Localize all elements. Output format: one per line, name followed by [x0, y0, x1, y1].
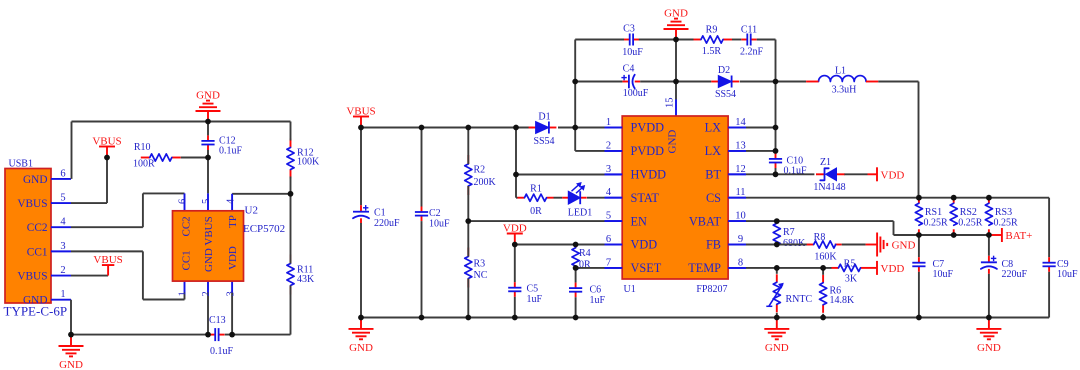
svg-text:L1: L1 [835, 65, 846, 76]
svg-text:2.2nF: 2.2nF [740, 47, 764, 58]
svg-text:VBUS: VBUS [92, 135, 121, 147]
svg-text:R8: R8 [814, 232, 826, 243]
svg-text:0.25R: 0.25R [958, 218, 983, 229]
svg-text:8: 8 [738, 257, 743, 268]
svg-text:GND: GND [892, 240, 916, 252]
svg-text:GND: GND [59, 359, 83, 370]
svg-text:SS54: SS54 [533, 136, 554, 147]
svg-text:GND VBUS: GND VBUS [203, 216, 215, 272]
svg-text:VBUS: VBUS [346, 105, 375, 117]
svg-text:R4: R4 [579, 248, 591, 259]
svg-text:LX: LX [705, 144, 722, 158]
svg-text:7: 7 [606, 257, 611, 268]
svg-text:FP8207: FP8207 [696, 284, 727, 295]
svg-text:220uF: 220uF [1002, 269, 1028, 280]
svg-text:GND: GND [977, 342, 1001, 354]
svg-text:PVDD: PVDD [631, 144, 665, 158]
svg-text:10uF: 10uF [429, 219, 450, 230]
svg-text:RNTC: RNTC [786, 294, 813, 305]
svg-text:0R: 0R [579, 260, 591, 271]
svg-text:D1: D1 [538, 112, 550, 123]
svg-text:U1: U1 [624, 284, 636, 295]
svg-text:0R: 0R [530, 206, 542, 217]
svg-text:3: 3 [60, 241, 65, 252]
svg-text:2: 2 [606, 140, 611, 151]
svg-text:3K: 3K [845, 273, 858, 284]
svg-text:3: 3 [225, 291, 236, 296]
svg-text:GND: GND [667, 130, 679, 154]
svg-text:3.3uH: 3.3uH [832, 85, 857, 96]
svg-text:FB: FB [706, 238, 721, 252]
svg-text:VBUS: VBUS [17, 198, 47, 210]
svg-text:200K: 200K [474, 177, 497, 188]
svg-text:10uF: 10uF [1057, 269, 1078, 280]
svg-text:6: 6 [60, 168, 65, 179]
svg-text:VDD: VDD [881, 263, 905, 275]
svg-text:VDD: VDD [227, 246, 239, 270]
svg-text:C3: C3 [623, 24, 635, 35]
svg-text:C12: C12 [219, 135, 236, 146]
svg-text:LX: LX [705, 121, 722, 135]
svg-text:GND: GND [23, 295, 47, 307]
svg-text:1: 1 [606, 117, 611, 128]
svg-text:0.25R: 0.25R [994, 218, 1019, 229]
svg-text:1N4148: 1N4148 [813, 182, 845, 193]
svg-text:PVDD: PVDD [631, 121, 665, 135]
svg-text:CC1: CC1 [27, 246, 48, 258]
svg-text:1uF: 1uF [527, 294, 543, 305]
svg-text:VDD: VDD [503, 222, 527, 234]
svg-text:R10: R10 [134, 142, 151, 153]
svg-text:1: 1 [178, 291, 189, 296]
svg-text:6: 6 [178, 199, 189, 204]
svg-text:14: 14 [735, 117, 746, 128]
svg-text:CC1: CC1 [181, 250, 193, 270]
svg-text:TP: TP [227, 215, 239, 228]
svg-text:C1: C1 [374, 208, 386, 219]
svg-text:SS54: SS54 [715, 89, 736, 100]
svg-text:C11: C11 [741, 25, 757, 36]
svg-text:0.1uF: 0.1uF [210, 346, 234, 357]
svg-text:BT: BT [705, 168, 721, 182]
svg-text:14.8K: 14.8K [830, 295, 856, 306]
svg-text:1: 1 [60, 289, 65, 300]
svg-text:R7: R7 [783, 227, 795, 238]
svg-text:Z1: Z1 [820, 157, 831, 168]
svg-text:GND: GND [765, 342, 789, 354]
svg-text:U2: U2 [245, 205, 258, 217]
svg-text:100K: 100K [297, 157, 320, 168]
svg-text:15: 15 [665, 98, 676, 109]
svg-text:160K: 160K [814, 252, 837, 263]
svg-text:C5: C5 [527, 284, 539, 295]
svg-text:9: 9 [738, 234, 743, 245]
svg-text:USB1: USB1 [9, 159, 33, 170]
svg-text:R3: R3 [474, 259, 486, 270]
svg-text:RS3: RS3 [995, 207, 1012, 218]
svg-text:NC: NC [474, 270, 488, 281]
svg-text:100R: 100R [133, 159, 155, 170]
svg-text:5: 5 [606, 211, 611, 222]
svg-text:C6: C6 [590, 285, 602, 296]
svg-text:GND: GND [23, 174, 47, 186]
svg-text:GND: GND [196, 89, 220, 101]
svg-text:C2: C2 [429, 208, 441, 219]
svg-text:VSET: VSET [631, 261, 662, 275]
svg-text:1uF: 1uF [590, 295, 606, 306]
svg-text:HVDD: HVDD [631, 168, 667, 182]
svg-text:TEMP: TEMP [688, 261, 721, 275]
svg-text:43K: 43K [297, 274, 315, 285]
svg-text:12: 12 [735, 164, 746, 175]
svg-text:5: 5 [201, 199, 212, 204]
svg-text:CC2: CC2 [181, 216, 193, 236]
svg-text:0.1uF: 0.1uF [219, 146, 243, 157]
svg-text:RS1: RS1 [925, 207, 942, 218]
svg-text:STAT: STAT [631, 191, 660, 205]
svg-text:BAT+: BAT+ [1005, 230, 1032, 242]
svg-text:VBUS: VBUS [93, 254, 122, 266]
svg-text:1.5R: 1.5R [702, 46, 722, 57]
svg-text:10uF: 10uF [622, 47, 643, 58]
svg-text:VDD: VDD [881, 170, 905, 182]
svg-text:0.25R: 0.25R [924, 218, 949, 229]
svg-text:VBUS: VBUS [17, 271, 47, 283]
svg-text:5: 5 [60, 192, 65, 203]
svg-text:220uF: 220uF [374, 218, 400, 229]
svg-text:R2: R2 [474, 165, 486, 176]
svg-text:LED1: LED1 [568, 208, 592, 219]
svg-text:4: 4 [225, 198, 236, 204]
svg-text:11: 11 [735, 187, 745, 198]
svg-text:GND: GND [664, 7, 688, 19]
svg-text:3: 3 [606, 164, 611, 175]
svg-text:4: 4 [606, 187, 612, 198]
svg-text:RS2: RS2 [960, 207, 977, 218]
svg-text:6: 6 [606, 234, 611, 245]
svg-text:ECP5702: ECP5702 [243, 223, 285, 235]
svg-text:EN: EN [631, 214, 648, 228]
svg-text:4: 4 [60, 217, 66, 228]
svg-text:GND: GND [349, 342, 373, 354]
svg-text:2: 2 [201, 291, 212, 296]
svg-text:VBAT: VBAT [689, 214, 722, 228]
svg-text:13: 13 [735, 140, 746, 151]
svg-text:R5: R5 [844, 259, 856, 270]
svg-text:10: 10 [735, 211, 746, 222]
svg-text:C4: C4 [623, 64, 635, 75]
svg-text:D2: D2 [718, 65, 730, 76]
svg-text:100uF: 100uF [623, 88, 649, 99]
svg-text:2: 2 [60, 265, 65, 276]
svg-text:VDD: VDD [631, 238, 658, 252]
svg-text:CC2: CC2 [27, 222, 48, 234]
svg-text:R9: R9 [706, 25, 718, 36]
svg-text:C13: C13 [209, 315, 226, 326]
svg-text:10uF: 10uF [933, 269, 954, 280]
svg-text:R1: R1 [530, 184, 542, 195]
svg-text:CS: CS [706, 191, 721, 205]
